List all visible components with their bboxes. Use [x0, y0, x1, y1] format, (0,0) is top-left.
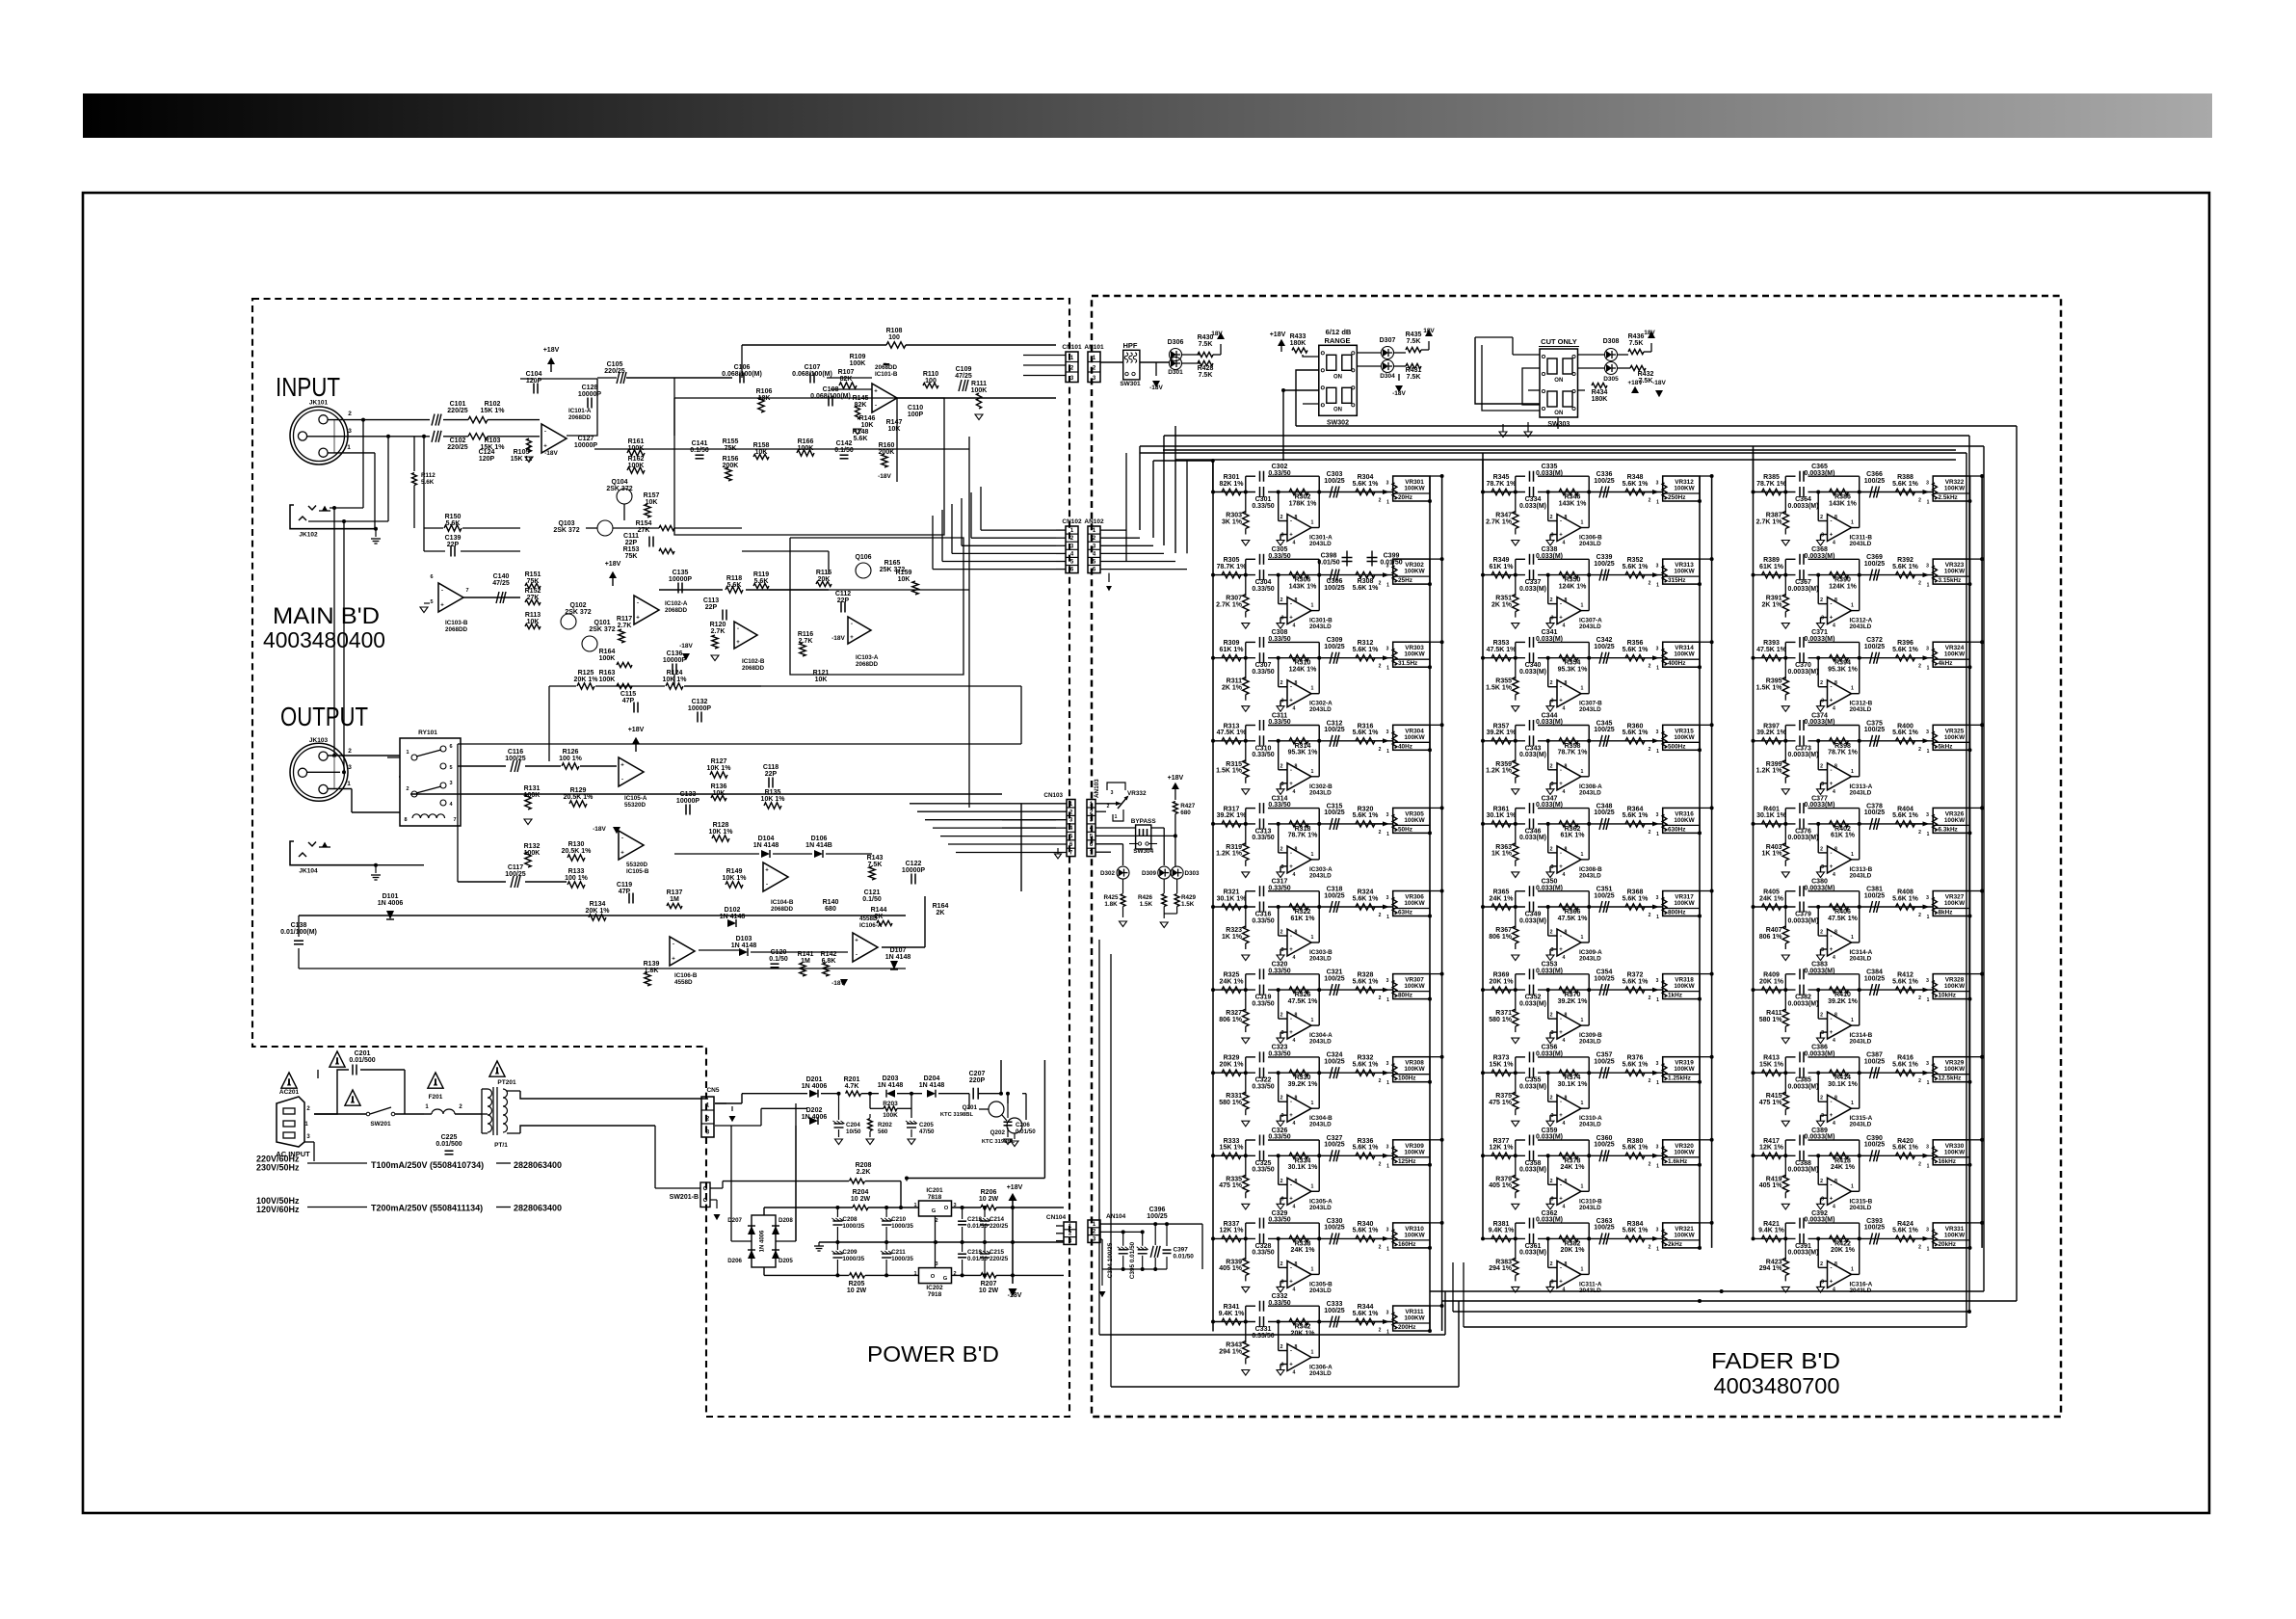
- svg-text:D308: D308: [1603, 338, 1620, 345]
- svg-text:1: 1: [1311, 769, 1314, 775]
- svg-text:4: 4: [1563, 541, 1566, 546]
- svg-text:C204: C204: [846, 1122, 860, 1128]
- svg-text:2: 2: [1280, 1344, 1283, 1350]
- svg-text:+18V: +18V: [1627, 380, 1643, 386]
- svg-text:2: 2: [1820, 1013, 1823, 1019]
- svg-text:78.7K 1%: 78.7K 1%: [1828, 750, 1859, 756]
- svg-text:-: -: [875, 404, 877, 410]
- svg-text:2043LD: 2043LD: [1579, 1205, 1601, 1211]
- svg-text:0.0033(M): 0.0033(M): [1788, 1000, 1819, 1007]
- svg-text:10K 1%: 10K 1%: [761, 796, 786, 803]
- svg-text:-18V: -18V: [1008, 1292, 1022, 1299]
- svg-text:0.33/50: 0.33/50: [1268, 553, 1290, 560]
- svg-text:2: 2: [1280, 763, 1283, 769]
- svg-text:2043LD: 2043LD: [1309, 624, 1332, 630]
- svg-text:10K 1%: 10K 1%: [709, 829, 734, 836]
- svg-text:160Hz: 160Hz: [1398, 1241, 1415, 1248]
- svg-text:0.033(M): 0.033(M): [1519, 1084, 1546, 1091]
- svg-text:18V: 18V: [1423, 328, 1435, 334]
- svg-text:0.0033(M): 0.0033(M): [1788, 669, 1819, 676]
- svg-text:5.6K 1%: 5.6K 1%: [1353, 1062, 1380, 1069]
- svg-text:+: +: [620, 763, 624, 769]
- svg-text:30.1K 1%: 30.1K 1%: [1828, 1081, 1859, 1088]
- svg-text:5.6K 1%: 5.6K 1%: [1892, 730, 1919, 736]
- svg-text:2: 2: [1649, 664, 1651, 670]
- svg-text:Q202: Q202: [990, 1129, 1006, 1136]
- svg-text:1000/35: 1000/35: [842, 1256, 864, 1262]
- svg-text:T200mA/250V (5508411134): T200mA/250V (5508411134): [371, 1204, 483, 1213]
- svg-text:0.33/50: 0.33/50: [1252, 917, 1274, 924]
- svg-text:2: 2: [1918, 913, 1921, 918]
- svg-text:+: +: [1830, 699, 1834, 704]
- svg-text:1.5K 1%: 1.5K 1%: [1756, 685, 1783, 692]
- svg-text:78.7K 1%: 78.7K 1%: [1288, 833, 1319, 839]
- svg-text:100/25: 100/25: [1864, 478, 1886, 485]
- svg-text:1: 1: [347, 781, 351, 787]
- svg-text:2828063400: 2828063400: [514, 1204, 562, 1213]
- svg-text:0.33/50: 0.33/50: [1268, 1134, 1290, 1141]
- svg-text:1K 1%: 1K 1%: [1222, 934, 1243, 941]
- svg-text:1: 1: [1311, 520, 1314, 526]
- svg-text:+: +: [1289, 1113, 1293, 1119]
- svg-text:1: 1: [1851, 1101, 1854, 1106]
- svg-text:0.0033(M): 0.0033(M): [1788, 1167, 1819, 1174]
- svg-text:250Hz: 250Hz: [1668, 494, 1685, 501]
- svg-text:3: 3: [1926, 730, 1929, 735]
- svg-text:5.6K 1%: 5.6K 1%: [1623, 1228, 1649, 1234]
- svg-text:580 1%: 580 1%: [1489, 1017, 1513, 1023]
- svg-text:30.1K 1%: 30.1K 1%: [1756, 812, 1787, 819]
- svg-text:+18V: +18V: [1270, 332, 1286, 338]
- svg-text:-: -: [1560, 934, 1562, 940]
- svg-text:39.2K 1%: 39.2K 1%: [1487, 730, 1517, 736]
- svg-text:C211: C211: [891, 1249, 906, 1256]
- svg-text:3: 3: [1656, 812, 1659, 818]
- svg-text:100 1%: 100 1%: [559, 756, 583, 762]
- svg-text:5.6K 1%: 5.6K 1%: [1892, 895, 1919, 902]
- svg-text:1: 1: [1656, 1246, 1659, 1252]
- svg-text:8: 8: [1565, 1013, 1568, 1019]
- svg-text:24K 1%: 24K 1%: [1759, 895, 1784, 902]
- svg-text:3: 3: [1386, 647, 1389, 652]
- svg-text:AN102: AN102: [1084, 518, 1104, 525]
- svg-text:15K 1%: 15K 1%: [1759, 1062, 1784, 1069]
- svg-text:5.6K 1%: 5.6K 1%: [1353, 585, 1380, 592]
- svg-text:475 1%: 475 1%: [1219, 1182, 1243, 1189]
- svg-text:405 1%: 405 1%: [1759, 1182, 1783, 1189]
- svg-text:-: -: [673, 942, 674, 948]
- svg-text:10000P: 10000P: [574, 442, 597, 449]
- svg-text:1: 1: [1386, 666, 1389, 672]
- svg-text:BYPASS: BYPASS: [1131, 818, 1157, 825]
- svg-text:78.7K 1%: 78.7K 1%: [1558, 750, 1589, 756]
- svg-text:4: 4: [1293, 1204, 1296, 1209]
- svg-text:-18V: -18V: [1652, 380, 1666, 386]
- svg-text:100/25: 100/25: [1324, 727, 1345, 733]
- svg-text:KTC 3198BL: KTC 3198BL: [982, 1139, 1016, 1145]
- svg-text:1.5K 1%: 1.5K 1%: [1486, 685, 1513, 692]
- svg-text:230V/50Hz: 230V/50Hz: [256, 1163, 300, 1173]
- svg-text:3: 3: [348, 428, 352, 435]
- svg-text:2: 2: [1918, 1244, 1921, 1250]
- svg-text:2K 1%: 2K 1%: [1222, 685, 1243, 692]
- svg-text:100/25: 100/25: [1324, 892, 1345, 899]
- svg-text:4: 4: [1833, 789, 1835, 795]
- svg-text:0.033(M): 0.033(M): [1519, 586, 1546, 593]
- svg-text:2: 2: [1550, 1261, 1553, 1267]
- svg-text:-: -: [1560, 685, 1562, 691]
- svg-text:8: 8: [1565, 763, 1568, 769]
- svg-text:15K 1%: 15K 1%: [1490, 1062, 1515, 1069]
- svg-text:47/25: 47/25: [492, 580, 510, 587]
- svg-text:1: 1: [1311, 1018, 1314, 1023]
- svg-text:100/25: 100/25: [1864, 1225, 1886, 1232]
- svg-text:8: 8: [1295, 1096, 1298, 1101]
- svg-text:ON: ON: [1333, 374, 1342, 380]
- svg-text:1.5K 1%: 1.5K 1%: [1216, 768, 1243, 775]
- svg-text:100/25: 100/25: [1594, 727, 1615, 733]
- svg-text:3: 3: [1926, 1227, 1929, 1233]
- svg-text:143K 1%: 143K 1%: [1829, 500, 1858, 507]
- svg-text:2043LD: 2043LD: [1850, 706, 1872, 713]
- svg-text:IC202: IC202: [926, 1285, 943, 1291]
- svg-text:1: 1: [1851, 935, 1854, 941]
- svg-text:30.1K 1%: 30.1K 1%: [1558, 1081, 1589, 1088]
- svg-text:1: 1: [1927, 749, 1930, 755]
- svg-text:2: 2: [1550, 515, 1553, 520]
- svg-text:39.2K 1%: 39.2K 1%: [1288, 1081, 1319, 1088]
- svg-text:12K 1%: 12K 1%: [1220, 1228, 1245, 1234]
- svg-text:2: 2: [1280, 930, 1283, 936]
- svg-text:8: 8: [1834, 763, 1837, 769]
- svg-text:0.0033(M): 0.0033(M): [1805, 802, 1835, 809]
- svg-text:D206: D206: [727, 1258, 742, 1264]
- svg-text:24K 1%: 24K 1%: [1490, 895, 1515, 902]
- svg-text:100/25: 100/25: [1324, 585, 1345, 592]
- svg-text:24K 1%: 24K 1%: [1291, 1247, 1316, 1254]
- svg-text:5.6K 1%: 5.6K 1%: [1892, 647, 1919, 653]
- svg-text:0.33/50: 0.33/50: [1252, 1250, 1274, 1257]
- svg-text:8: 8: [1565, 1261, 1568, 1267]
- svg-text:2: 2: [348, 748, 352, 755]
- svg-text:IC102-A: IC102-A: [665, 600, 688, 607]
- svg-text:2: 2: [1820, 680, 1823, 686]
- svg-text:0.033(M): 0.033(M): [1519, 503, 1546, 510]
- svg-text:4: 4: [1293, 1370, 1296, 1376]
- svg-text:3: 3: [1281, 1196, 1284, 1202]
- svg-text:SW304: SW304: [1133, 848, 1153, 855]
- svg-text:3: 3: [1656, 895, 1659, 901]
- svg-text:2: 2: [1820, 597, 1823, 603]
- svg-text:100K: 100K: [798, 445, 814, 452]
- svg-text:+: +: [1559, 533, 1563, 539]
- svg-text:2043LD: 2043LD: [1579, 1122, 1601, 1128]
- svg-text:2kHz: 2kHz: [1668, 1241, 1682, 1248]
- svg-text:5.6K 1%: 5.6K 1%: [1353, 647, 1380, 653]
- svg-text:3: 3: [1551, 1030, 1554, 1036]
- svg-text:1: 1: [1927, 1246, 1930, 1252]
- svg-text:+18V: +18V: [628, 727, 645, 733]
- svg-text:10000P: 10000P: [902, 867, 925, 874]
- svg-text:2: 2: [1379, 1161, 1382, 1167]
- svg-text:100KW: 100KW: [1944, 734, 1966, 741]
- svg-text:R425: R425: [1103, 894, 1119, 901]
- svg-text:20kHz: 20kHz: [1939, 1241, 1956, 1248]
- svg-text:8: 8: [1834, 846, 1837, 852]
- svg-text:-: -: [1290, 519, 1292, 525]
- svg-text:2: 2: [1820, 515, 1823, 520]
- svg-text:D302: D302: [1100, 870, 1116, 877]
- svg-text:0.0033(M): 0.0033(M): [1805, 636, 1835, 643]
- svg-text:2: 2: [1379, 913, 1382, 918]
- svg-text:3: 3: [1821, 1030, 1824, 1036]
- svg-text:15K 1%: 15K 1%: [481, 408, 506, 414]
- svg-text:2043LD: 2043LD: [1309, 1370, 1332, 1377]
- svg-text:1: 1: [1851, 520, 1854, 526]
- svg-text:8: 8: [1565, 515, 1568, 520]
- svg-text:8: 8: [1565, 680, 1568, 686]
- svg-text:0.33/50: 0.33/50: [1252, 586, 1274, 593]
- svg-text:2043LD: 2043LD: [1850, 1205, 1872, 1211]
- svg-text:3: 3: [1926, 1144, 1929, 1150]
- svg-text:3: 3: [1926, 564, 1929, 570]
- svg-text:5.6K 1%: 5.6K 1%: [1623, 481, 1649, 488]
- svg-text:-: -: [1290, 1017, 1292, 1022]
- svg-text:2: 2: [1280, 515, 1283, 520]
- svg-text:-: -: [1831, 1017, 1833, 1022]
- svg-text:1: 1: [1581, 852, 1584, 858]
- svg-text:5.6K 1%: 5.6K 1%: [1892, 812, 1919, 819]
- svg-text:D301: D301: [1168, 369, 1183, 376]
- svg-text:2: 2: [1280, 680, 1283, 686]
- svg-text:10000P: 10000P: [669, 576, 692, 583]
- svg-text:0.068/100(M): 0.068/100(M): [810, 393, 851, 400]
- svg-text:63Hz: 63Hz: [1398, 910, 1412, 916]
- svg-text:2043LD: 2043LD: [1579, 706, 1601, 713]
- svg-text:4: 4: [1293, 1038, 1296, 1044]
- svg-text:0.33/50: 0.33/50: [1252, 835, 1274, 841]
- svg-text:0.0033(M): 0.0033(M): [1788, 503, 1819, 510]
- svg-text:C394 100/25: C394 100/25: [1107, 1242, 1114, 1278]
- svg-text:0.033(M): 0.033(M): [1519, 752, 1546, 758]
- svg-text:47.5K 1%: 47.5K 1%: [1288, 998, 1319, 1005]
- svg-text:0.0033(M): 0.0033(M): [1788, 752, 1819, 758]
- svg-text:0.33/50: 0.33/50: [1268, 1051, 1290, 1058]
- svg-text:806 1%: 806 1%: [1489, 934, 1513, 941]
- svg-text:-: -: [1831, 685, 1833, 691]
- svg-text:0.033(M): 0.033(M): [1519, 1167, 1546, 1174]
- svg-text:2.7K 1%: 2.7K 1%: [1486, 518, 1513, 525]
- svg-text:82K: 82K: [840, 376, 853, 383]
- svg-text:55320D: 55320D: [626, 862, 648, 868]
- svg-text:+: +: [874, 389, 878, 395]
- svg-text:2: 2: [1649, 498, 1651, 504]
- svg-text:3: 3: [1926, 895, 1929, 901]
- svg-text:2: 2: [1550, 846, 1553, 852]
- svg-text:0.0033(M): 0.0033(M): [1805, 553, 1835, 560]
- svg-text:+18V: +18V: [543, 347, 560, 354]
- svg-text:2043LD: 2043LD: [1309, 872, 1332, 879]
- svg-text:PT201: PT201: [497, 1079, 516, 1086]
- svg-text:0.033(M): 0.033(M): [1536, 719, 1563, 726]
- svg-text:1: 1: [1851, 852, 1854, 858]
- svg-text:3: 3: [1281, 1279, 1284, 1285]
- svg-text:8kHz: 8kHz: [1939, 910, 1953, 916]
- svg-text:8: 8: [1295, 1013, 1298, 1019]
- svg-text:8: 8: [1834, 680, 1837, 686]
- svg-text:12K 1%: 12K 1%: [1490, 1145, 1515, 1152]
- svg-text:2: 2: [1550, 597, 1553, 603]
- svg-text:3: 3: [1821, 947, 1824, 953]
- svg-text:3: 3: [1551, 1196, 1554, 1202]
- svg-text:IC101-B: IC101-B: [875, 371, 898, 378]
- svg-text:1: 1: [1927, 666, 1930, 672]
- svg-text:20K 1%: 20K 1%: [586, 908, 611, 915]
- svg-text:10K: 10K: [815, 677, 828, 683]
- svg-text:3: 3: [1926, 647, 1929, 652]
- svg-text:1: 1: [1386, 749, 1389, 755]
- svg-text:1.5K: 1.5K: [1181, 901, 1195, 908]
- svg-text:HPF: HPF: [1123, 341, 1138, 350]
- svg-text:+: +: [1559, 1113, 1563, 1119]
- svg-text:100KW: 100KW: [1944, 900, 1966, 907]
- svg-text:50Hz: 50Hz: [1398, 826, 1412, 833]
- svg-text:IC104-B: IC104-B: [771, 899, 794, 906]
- svg-text:2: 2: [1280, 846, 1283, 852]
- svg-text:2.2K: 2.2K: [857, 1169, 871, 1176]
- svg-text:8: 8: [404, 817, 407, 823]
- svg-text:82K 1%: 82K 1%: [1220, 481, 1245, 488]
- svg-text:2: 2: [1918, 498, 1921, 504]
- svg-text:2: 2: [1649, 1244, 1651, 1250]
- svg-text:+: +: [1289, 1363, 1293, 1368]
- svg-text:3: 3: [1281, 699, 1284, 704]
- svg-text:+: +: [543, 444, 547, 450]
- svg-text:3: 3: [1821, 864, 1824, 870]
- svg-text:1: 1: [1115, 814, 1118, 820]
- svg-text:10000P: 10000P: [676, 798, 699, 805]
- svg-text:2: 2: [1649, 995, 1651, 1001]
- svg-text:D305: D305: [1603, 376, 1619, 383]
- svg-text:47.5K 1%: 47.5K 1%: [1217, 730, 1248, 736]
- svg-text:8: 8: [1565, 930, 1568, 936]
- svg-text:+: +: [1559, 1196, 1563, 1202]
- svg-text:0.0033(M): 0.0033(M): [1788, 1250, 1819, 1257]
- svg-text:100/25: 100/25: [1864, 644, 1886, 650]
- svg-text:-: -: [1831, 1182, 1833, 1188]
- svg-text:2: 2: [406, 786, 409, 792]
- svg-text:0.033(M): 0.033(M): [1519, 669, 1546, 676]
- svg-text:1: 1: [913, 1271, 916, 1277]
- svg-text:100KW: 100KW: [1404, 1232, 1425, 1238]
- svg-text:560: 560: [878, 1128, 888, 1135]
- svg-text:5.6K 1%: 5.6K 1%: [1623, 1062, 1649, 1069]
- svg-text:3: 3: [1821, 782, 1824, 787]
- svg-text:D307: D307: [1380, 337, 1396, 344]
- svg-text:100Hz: 100Hz: [1398, 1075, 1415, 1082]
- svg-text:4: 4: [1293, 706, 1296, 712]
- svg-text:95.3K 1%: 95.3K 1%: [1558, 667, 1589, 674]
- svg-text:3: 3: [1386, 1144, 1389, 1150]
- svg-text:1: 1: [1311, 1350, 1314, 1356]
- svg-text:-: -: [1560, 768, 1562, 774]
- svg-text:-18V: -18V: [1149, 385, 1163, 391]
- svg-text:3: 3: [1551, 864, 1554, 870]
- svg-text:+: +: [1289, 782, 1293, 787]
- svg-text:7918: 7918: [928, 1291, 942, 1298]
- svg-text:1: 1: [1581, 935, 1584, 941]
- svg-text:100KW: 100KW: [1404, 651, 1425, 658]
- svg-text:+: +: [636, 616, 640, 622]
- svg-text:100K: 100K: [628, 463, 645, 469]
- svg-text:3: 3: [1386, 812, 1389, 818]
- svg-text:100KW: 100KW: [1404, 1066, 1425, 1073]
- svg-text:2043LD: 2043LD: [1850, 956, 1872, 963]
- svg-text:3.15kHz: 3.15kHz: [1939, 577, 1962, 584]
- svg-text:2068DD: 2068DD: [445, 626, 468, 633]
- svg-text:2068DD: 2068DD: [568, 414, 592, 421]
- svg-text:8: 8: [1295, 930, 1298, 936]
- svg-text:1: 1: [1656, 666, 1659, 672]
- svg-text:3: 3: [1926, 481, 1929, 487]
- svg-text:100K: 100K: [971, 387, 988, 394]
- svg-text:+: +: [855, 939, 858, 944]
- svg-text:2043LD: 2043LD: [1579, 1039, 1601, 1046]
- svg-text:39.2K 1%: 39.2K 1%: [1217, 812, 1248, 819]
- svg-text:100/25: 100/25: [1864, 1059, 1886, 1066]
- svg-text:1: 1: [1386, 997, 1389, 1003]
- svg-text:1: 1: [1386, 583, 1389, 589]
- svg-text:D306: D306: [1168, 339, 1184, 346]
- svg-text:0.33/50: 0.33/50: [1268, 1300, 1290, 1307]
- svg-text:100/25: 100/25: [1324, 1225, 1345, 1232]
- svg-text:-18V: -18V: [878, 473, 891, 480]
- svg-text:178K 1%: 178K 1%: [1289, 500, 1318, 507]
- svg-text:4003480700: 4003480700: [1714, 1373, 1840, 1398]
- svg-text:100KW: 100KW: [1674, 486, 1695, 492]
- svg-text:MAIN B'D: MAIN B'D: [273, 603, 380, 629]
- svg-text:294 1%: 294 1%: [1219, 1348, 1243, 1355]
- svg-text:100KW: 100KW: [1944, 486, 1966, 492]
- svg-text:1N 414B: 1N 414B: [805, 842, 832, 849]
- svg-text:2: 2: [1820, 1096, 1823, 1101]
- svg-text:+: +: [620, 851, 624, 857]
- svg-text:2043LD: 2043LD: [1850, 872, 1872, 879]
- svg-text:143K 1%: 143K 1%: [1289, 583, 1318, 590]
- svg-text:8: 8: [1565, 846, 1568, 852]
- svg-text:C210: C210: [891, 1216, 907, 1223]
- svg-text:5.6K 1%: 5.6K 1%: [1892, 564, 1919, 571]
- svg-text:2043LD: 2043LD: [1309, 541, 1332, 547]
- svg-text:KTC 3198BL: KTC 3198BL: [940, 1112, 974, 1118]
- svg-text:100/25: 100/25: [1324, 975, 1345, 982]
- svg-text:61K 1%: 61K 1%: [1759, 564, 1784, 571]
- svg-text:2: 2: [1379, 498, 1382, 504]
- svg-text:2: 2: [1918, 830, 1921, 836]
- svg-text:+: +: [1559, 616, 1563, 622]
- svg-text:2043LD: 2043LD: [1579, 872, 1601, 879]
- svg-text:8: 8: [1834, 597, 1837, 603]
- svg-text:6/12 dB: 6/12 dB: [1326, 328, 1352, 336]
- svg-text:3: 3: [1386, 1311, 1389, 1316]
- svg-text:1: 1: [1311, 852, 1314, 858]
- svg-text:+: +: [1559, 864, 1563, 870]
- svg-text:+: +: [1559, 1030, 1563, 1036]
- svg-text:8: 8: [1565, 597, 1568, 603]
- svg-text:5.6K: 5.6K: [421, 479, 435, 486]
- svg-text:2: 2: [1649, 830, 1651, 836]
- svg-text:AN101: AN101: [1084, 344, 1104, 351]
